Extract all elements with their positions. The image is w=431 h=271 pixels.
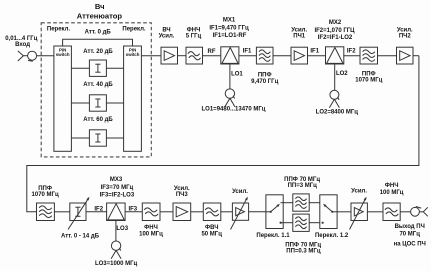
svg-text:ППФ 70 МГц: ППФ 70 МГц: [284, 177, 320, 183]
svg-text:на ЦОС ПЧ: на ЦОС ПЧ: [394, 242, 426, 248]
svg-text:Атт. 0 дБ: Атт. 0 дБ: [85, 30, 112, 36]
svg-text:Аттенюатор: Аттенюатор: [77, 11, 123, 20]
svg-text:Выход ПЧ: Выход ПЧ: [395, 224, 425, 230]
svg-text:ППФ: ППФ: [38, 186, 52, 192]
svg-text:Перекл. 1.1: Перекл. 1.1: [256, 233, 290, 239]
svg-text:IF3: IF3: [128, 207, 137, 213]
svg-text:100 МГц: 100 МГц: [139, 231, 163, 237]
svg-text:ПЧ1: ПЧ1: [293, 34, 306, 40]
svg-text:ФНЧ: ФНЧ: [187, 27, 201, 33]
svg-text:LO3: LO3: [116, 226, 128, 232]
svg-text:IF1=LO1-RF: IF1=LO1-RF: [213, 33, 247, 39]
svg-text:ПЧ3: ПЧ3: [176, 192, 189, 198]
svg-text:70 МГц: 70 МГц: [399, 232, 420, 238]
svg-text:RF: RF: [208, 49, 216, 55]
svg-text:1070 МГц: 1070 МГц: [32, 192, 59, 198]
svg-text:ПП=3 МГц: ПП=3 МГц: [288, 183, 318, 189]
svg-text:IF2=IF1-LO2: IF2=IF1-LO2: [318, 35, 353, 41]
svg-text:IF1: IF1: [243, 49, 252, 55]
svg-text:LO1=9480...13470 МГц: LO1=9480...13470 МГц: [202, 107, 266, 113]
svg-text:LO1: LO1: [231, 71, 243, 77]
svg-text:9,470 ГГц: 9,470 ГГц: [251, 79, 278, 85]
svg-text:Атт. 60 дБ: Атт. 60 дБ: [83, 117, 113, 123]
svg-text:Перекл.: Перекл.: [122, 27, 146, 33]
svg-text:ППФ 70 МГц: ППФ 70 МГц: [285, 242, 321, 248]
svg-text:5 ГГц: 5 ГГц: [186, 34, 202, 40]
svg-text:50 МГц: 50 МГц: [201, 231, 222, 237]
svg-text:ВЧ: ВЧ: [162, 27, 170, 33]
svg-text:ФВЧ: ФВЧ: [205, 225, 218, 231]
svg-text:Вход: Вход: [15, 42, 30, 48]
svg-text:Усил.: Усил.: [291, 27, 307, 33]
svg-text:IF2: IF2: [347, 49, 356, 55]
svg-text:Атт. 20 дБ: Атт. 20 дБ: [83, 49, 113, 55]
svg-text:IF3=70 МГц: IF3=70 МГц: [101, 185, 134, 191]
svg-text:IF2: IF2: [94, 207, 103, 213]
svg-text:MX1: MX1: [223, 17, 236, 23]
svg-text:LO3=1000 МГц: LO3=1000 МГц: [95, 261, 138, 267]
svg-text:IF3=IF2-LO3: IF3=IF2-LO3: [100, 193, 135, 199]
svg-text:IF2=1,070 ГГЦ: IF2=1,070 ГГЦ: [314, 28, 355, 34]
svg-text:MX2: MX2: [329, 20, 342, 26]
svg-text:Усил.: Усил.: [159, 34, 175, 40]
svg-text:100 МГц: 100 МГц: [380, 190, 404, 196]
svg-text:ППФ: ППФ: [362, 71, 376, 77]
svg-text:Атт. 0 - 14 дБ: Атт. 0 - 14 дБ: [61, 234, 100, 240]
svg-text:Перекл.: Перекл.: [47, 27, 71, 33]
svg-text:ППФ: ППФ: [258, 73, 272, 79]
svg-text:Вч: Вч: [95, 2, 105, 11]
svg-text:ФНЧ: ФНЧ: [144, 225, 158, 231]
svg-text:switch: switch: [126, 52, 140, 57]
svg-text:ПП=0.3 МГц: ПП=0.3 МГц: [286, 248, 321, 254]
svg-text:1070 МГц: 1070 МГц: [355, 77, 382, 83]
svg-text:Усил.: Усил.: [351, 189, 367, 195]
svg-text:ФНЧ: ФНЧ: [385, 183, 399, 189]
svg-text:switch: switch: [56, 52, 70, 57]
svg-text:IF1=9,470 ГГц: IF1=9,470 ГГц: [209, 26, 249, 32]
svg-text:Усил.: Усил.: [397, 27, 413, 33]
svg-text:IF1: IF1: [310, 49, 319, 55]
svg-text:Усил.: Усил.: [232, 189, 248, 195]
svg-text:MX3: MX3: [110, 177, 123, 183]
svg-text:ПЧ2: ПЧ2: [399, 34, 412, 40]
svg-text:Атт. 40 дБ: Атт. 40 дБ: [83, 82, 113, 88]
svg-text:LO2: LO2: [336, 71, 348, 77]
svg-text:Перекл. 1.2: Перекл. 1.2: [315, 233, 349, 239]
svg-text:LO2=8400 МГц: LO2=8400 МГц: [316, 110, 359, 116]
